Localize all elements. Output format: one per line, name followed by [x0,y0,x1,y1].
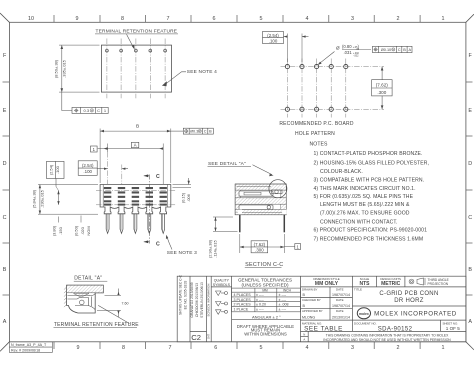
feature control frame (top view) [72,107,108,113]
retention detail inside balloon [272,190,283,194]
svg-text:B: B [136,124,139,130]
feature control frame content [74,108,107,113]
tolerance sub-table [232,288,301,320]
svg-text:± ----: ± ---- [279,298,288,302]
holes row 1 [285,65,348,69]
detail A body [67,285,104,313]
svg-text:Rev. # 2009/06/18: Rev. # 2009/06/18 [11,348,40,352]
svg-text:DR HORZ: DR HORZ [394,298,423,304]
svg-text:2 PLACES: 2 PLACES [234,303,252,307]
svg-text:(2.54): (2.54) [267,33,279,38]
svg-text:MM ONLY: MM ONLY [315,281,339,287]
leader from dim to position frame [62,92,72,110]
svg-text:.230±.015: .230±.015 [40,189,45,208]
front view contact stacks [104,187,167,206]
drawn by row [302,288,344,292]
draft note [237,324,294,337]
section side hatched walls [235,184,241,215]
dim A dimension line [98,147,164,150]
proprietary statement [323,333,451,341]
svg-text:3 PLACES: 3 PLACES [234,298,252,302]
svg-text:NOTES: NOTES [310,141,329,147]
leader to hole 3 [127,34,135,49]
svg-text:SHEET NO.: SHEET NO. [443,321,459,325]
svg-text:CONNECTION WITH CONTACT.: CONNECTION WITH CONTACT. [320,219,398,225]
hole row centerlines [281,67,385,110]
right zone letters [468,53,472,325]
svg-text:SEE NOTE 3: SEE NOTE 3 [167,250,197,256]
svg-text:Ø0.10: Ø0.10 [381,48,391,52]
dim box (2.54)/.100 row pitch [47,161,65,178]
dim B extension lines [100,129,171,184]
svg-text:0.3: 0.3 [84,108,90,113]
svg-text:RECOMMENDED P.C. BOARD: RECOMMENDED P.C. BOARD [279,121,354,127]
svg-text:.006: .006 [186,193,191,202]
svg-text:5: 5 [260,16,263,22]
label TERMINAL RETENTION FEATURE (top) [95,28,178,34]
svg-text:2013/01/14: 2013/01/14 [332,315,350,319]
svg-text:M: M [199,130,201,133]
svg-text:(0.50): (0.50) [74,225,79,236]
svg-text:1: 1 [93,147,96,152]
leader SEE NOTE 3 [166,235,172,250]
dim B dimension line [100,130,183,133]
proprietary small cells [307,331,309,341]
pin1/pin2 centerline stubs [108,152,122,184]
svg-text:± .008: ± .008 [279,303,289,307]
svg-text:SEE DETAIL "A": SEE DETAIL "A" [208,161,246,167]
svg-text:.100: .100 [269,38,278,43]
pin pitch dim arrows [97,168,128,170]
svg-text:3: 3 [351,16,354,22]
svg-text:A: A [468,319,472,325]
svg-text:7.60: 7.60 [122,302,129,306]
section body outline [235,184,286,215]
third angle projection text [428,278,449,286]
holes row 2 [285,107,348,111]
hole pitch extension lines [287,34,302,63]
dim A extension centerlines [108,144,164,185]
circuit 1 boxed label (front view) [91,146,98,152]
top zone ticks [54,15,420,22]
sheet no divider [439,320,441,331]
svg-text:METRIC: METRIC [381,281,401,287]
svg-text:TERMINAL RETENTION FEATURE: TERMINAL RETENTION FEATURE [54,322,139,328]
quality symbols header [213,279,231,287]
left zone ticks [3,82,10,295]
svg-text:1 PLACE: 1 PLACE [234,307,249,311]
svg-text:C-GRID PCB CONN: C-GRID PCB CONN [379,291,438,297]
top view housing outline [101,45,171,92]
svg-text:MM: MM [262,288,268,292]
bottom zone ticks [54,342,420,349]
svg-text:7: 7 [169,345,172,351]
leader (0.50) [80,216,82,223]
svg-text:EC NO. S205-1E33: EC NO. S205-1E33 [184,280,188,309]
svg-text:C2: C2 [191,333,201,342]
svg-text:1: 1 [297,244,300,249]
dim text (8.50±.38)/.335±.015 rotated [54,59,67,78]
dim (7.62)/.300 between pins [240,234,284,253]
corner diagonal bottom-right [466,342,474,350]
svg-text:ANGULAR ± 2 °: ANGULAR ± 2 ° [252,314,281,319]
svg-text:PROJECTION: PROJECTION [428,282,449,286]
section arrows C [144,174,148,177]
front view housing inner walls [103,185,168,208]
svg-text:3) COMPATABLE WITH PCB HOLE PA: 3) COMPATABLE WITH PCB HOLE PATTERN. [314,178,425,184]
svg-text:D: D [468,161,472,167]
svg-text:B: B [209,130,212,134]
by/date sub divider [329,287,331,320]
svg-text:C: C [398,48,401,52]
row line under top row [301,286,466,288]
svg-text:A: A [3,319,7,325]
svg-text:DATE: DATE [336,298,344,302]
svg-text:D: D [3,161,7,167]
leader to hole 3 [318,52,335,65]
dim (0.50)/.020 NOM rotated with leader [74,225,92,236]
svg-text:SEE NOTE 4: SEE NOTE 4 [187,69,217,75]
section top hatched wall [235,184,286,190]
svg-text:.020: .020 [80,226,85,235]
svg-text:M: M [392,49,394,52]
dim box (2.54)/.100 hole pitch [263,32,284,44]
proprietary cells content [303,332,305,341]
lower cavity contact [239,205,273,210]
svg-text:LENGTH MUST BE (5.65)/.222 MIN: LENGTH MUST BE (5.65)/.222 MIN & [320,202,410,208]
revision strip dividers [189,276,191,342]
corner diagonal top-right [466,14,474,22]
frame filename box bottom-left [9,342,52,353]
svg-text:.335±.015: .335±.015 [62,59,67,78]
svg-text:.100: .100 [55,165,60,174]
corner diagonal top-left [0,13,9,22]
svg-text:6: 6 [213,16,216,22]
design units cell [380,277,401,287]
svg-text:10: 10 [28,16,34,22]
svg-text:B: B [468,267,472,273]
svg-text:5) FOR (0.635)/.025 SQ. MALE P: 5) FOR (0.635)/.025 SQ. MALE PINS THE [314,194,414,200]
svg-text:Ø: Ø [336,46,340,51]
svg-text:.300: .300 [255,248,264,253]
svg-text:1987/07/14: 1987/07/14 [332,304,350,308]
hole column centerlines [287,59,345,118]
svg-text:ECR/ECN INFORMATION: ECR/ECN INFORMATION [206,284,210,317]
revision strip rotated text [179,274,211,339]
detail A balloon circle [269,180,287,198]
dim (8.50)/.335 extension lines [59,45,100,92]
svg-text:9: 9 [76,16,79,22]
svg-text:F: F [469,53,473,59]
svg-text:1: 1 [442,345,445,351]
svg-text:± ----: ± ---- [256,307,265,311]
detail A wedge feature [74,294,90,298]
svg-text:E: E [468,108,472,114]
caption SECTION C-C [245,262,284,268]
scale cell [360,277,371,287]
svg-text:.300: .300 [377,90,386,95]
svg-text:F: F [3,53,7,59]
leader (3.80) [58,217,60,223]
svg-text:DATE: DATE [336,309,344,313]
quality symbol 1 [216,291,228,296]
hole diameter callout [336,44,371,58]
top view terminal centerlines [107,39,165,99]
svg-text:DRAWN BY: DRAWN BY [302,288,318,292]
svg-text:INCH: INCH [283,288,291,292]
section pins [240,215,284,233]
svg-text:C: C [156,174,160,180]
svg-text:N_frame_A3_P_4A_T: N_frame_A3_P_4A_T [11,343,47,347]
svg-text:DATE: DATE [336,288,344,292]
svg-text:THIS DRAWING CONTAINS INFORMAT: THIS DRAWING CONTAINS INFORMATION THAT I… [326,333,449,337]
svg-text:SHT: SHT [206,333,210,339]
svg-text:1 OF 5: 1 OF 5 [446,326,460,331]
svg-text:(7.62): (7.62) [376,83,388,88]
svg-text:C: C [204,130,207,134]
section cavity extra lines [237,186,286,212]
feature control frame (holes) [373,46,413,52]
quality symbol 2 [216,302,228,307]
dim (8.50)/.335 dimension line with arrows [61,45,64,92]
checked by row [302,298,344,302]
approved by row [302,309,344,313]
quality symbol 3 [216,310,228,315]
svg-text:(5.84±.38): (5.84±.38) [32,189,37,208]
dim (2.90±.38)/.114±.015 pin length [213,217,238,231]
svg-text:SDA-90152: SDA-90152 [378,326,413,332]
dim (5.84±.38)/.230±.015 [38,185,98,215]
svg-text:SEE TABLE: SEE TABLE [304,326,343,333]
svg-text:DETAIL "A": DETAIL "A" [74,276,102,282]
svg-text:9: 9 [77,345,80,351]
svg-text:(7.62): (7.62) [254,242,266,247]
svg-text:1: 1 [104,108,107,113]
dim (3.80)/.150 rotated with leader [52,225,64,236]
revision letter cell line [190,330,207,332]
svg-text:8: 8 [122,345,125,351]
detail A dim arrows [117,289,119,318]
svg-text:B: B [403,48,406,52]
detail A hatched top [67,285,104,293]
svg-text:1: 1 [442,16,445,22]
svg-text:MLONG: MLONG [302,315,315,319]
svg-text:CHIODO96 2013/06/13: CHIODO96 2013/06/13 [195,283,199,317]
section bottom hatched wall [235,209,286,214]
section line C-C through pin 4 [144,175,150,244]
upper cavity contact [239,191,273,196]
svg-text:SECTION C-C: SECTION C-C [245,262,283,268]
svg-text:6: 6 [214,345,217,351]
svg-text:5: 5 [260,345,263,351]
svg-text:1) CONTACT-PLATED PHOSPHOR BRO: 1) CONTACT-PLATED PHOSPHOR BRONZE. [314,151,423,157]
hole pitch dim arrows [284,35,309,37]
corner diagonal bottom-left [0,342,9,352]
title block outline [177,276,466,342]
top zone numbers [28,16,445,22]
svg-text:HOLE PATTERN: HOLE PATTERN [295,131,335,137]
svg-text:TITLE: TITLE [354,288,362,292]
front view pins [106,214,164,234]
detail A left edge hatch [64,287,67,307]
dim box (7.62)/.300 [372,80,393,96]
caption DETAIL 'A' [74,276,108,282]
label TERMINAL RETENTION FEATURE (detail) [54,322,140,328]
svg-text:± ----: ± ---- [279,293,288,297]
front view housing outline with pin towers [100,185,171,214]
svg-text:± ----: ± ---- [279,307,288,311]
tolerance rows [234,293,289,311]
svg-text:C: C [97,108,100,113]
svg-text:2) HOUSING-15% GLASS FILLED PO: 2) HOUSING-15% GLASS FILLED POLYESTER, [314,160,430,166]
dim A boxed label [131,142,138,147]
svg-text:COLOUR-BLACK.: COLOUR-BLACK. [320,169,363,175]
svg-text:SYMBOLS: SYMBOLS [213,283,231,287]
svg-text:(UNLESS SPECIFIED): (UNLESS SPECIFIED) [242,282,289,287]
svg-text:8: 8 [121,16,124,22]
svg-text:CHECKED BY: CHECKED BY [302,298,321,302]
section middle hatched wall [235,198,286,204]
svg-text:(7.00)/.276 MAX. TO ENSURE GOO: (7.00)/.276 MAX. TO ENSURE GOOD [320,211,410,217]
svg-text:7) RECOMMENDED PCB THICKNESS 1: 7) RECOMMENDED PCB THICKNESS 1.6MM [314,236,424,242]
svg-text:1987/07/14: 1987/07/14 [332,293,350,297]
dim box (7.62)/.300 (section) [251,241,268,253]
dimension style cell [313,277,339,287]
row pitch leader and arrows [56,179,60,205]
svg-text:4) THIS MARK INDICATES CIRCUIT: 4) THIS MARK INDICATES CIRCUIT NO.1. [314,186,416,192]
svg-text:7: 7 [167,16,170,22]
svg-text:(3.80): (3.80) [52,225,57,236]
quality symbols header line [211,286,231,288]
detail A contact features [68,294,96,310]
svg-text:.100: .100 [83,169,92,174]
bottom zone numbers [77,345,445,351]
label SEE DETAIL 'A' [208,161,252,167]
svg-text:(8.50±.38): (8.50±.38) [54,59,59,78]
svg-text:GRANATO2 2013/08/09: GRANATO2 2013/08/09 [190,282,194,317]
svg-text:N: N [303,332,305,336]
svg-text:M: M [91,109,93,113]
svg-text:3: 3 [351,345,354,351]
svg-text:C: C [468,215,472,221]
svg-text:molex: molex [359,312,369,316]
svg-text:C: C [156,242,160,248]
svg-text:2: 2 [397,16,400,22]
svg-text:± 0.20: ± 0.20 [256,303,266,307]
frame filename text [11,343,47,352]
svg-text:STEVERLIN 2013/06/13: STEVERLIN 2013/06/13 [200,282,204,318]
dim (0.15)/.006 housing lip [173,178,192,188]
title cell line [352,305,466,307]
svg-text:(2.54): (2.54) [48,164,53,175]
svg-text:INCORPORATED AND SHOULD NOT BE: INCORPORATED AND SHOULD NOT BE USED WITH… [323,338,451,342]
leader SEE DETAIL 'A' [253,165,274,176]
general tolerances heading [238,277,292,287]
dim box (2.54)/.100 pin pitch [78,161,97,176]
svg-text:B: B [3,267,7,273]
svg-text:Ø0.3: Ø0.3 [190,130,198,134]
svg-text:2: 2 [397,345,400,351]
svg-text:6) PRODUCT SPECIFICATION: PS-9: 6) PRODUCT SPECIFICATION: PS-99020-0001 [314,228,428,234]
svg-text:B: B [303,304,306,308]
svg-text:DOCUMENT NO.: DOCUMENT NO. [354,321,377,325]
svg-text:C: C [3,215,7,221]
svg-text:NOM: NOM [86,226,91,235]
third angle projection symbol [409,278,425,285]
svg-text:.150: .150 [58,226,63,235]
svg-text:.114±.015: .114±.015 [212,239,217,257]
front view row centerlines [96,191,176,205]
svg-text:E: E [3,108,7,114]
svg-text:4: 4 [306,16,309,22]
svg-text:± ----: ± ---- [256,293,265,297]
section pin pass-through gaps [238,210,287,215]
left zone letters [3,53,7,325]
svg-text:-.002: -.002 [353,54,359,57]
svg-text:MOLEX INCORPORATED: MOLEX INCORPORATED [374,311,457,318]
circuit no.1 mark (solid triangle) [162,81,167,86]
feature control frame (front view) [183,128,213,134]
top view retention holes [106,49,167,52]
svg-text:NTS: NTS [360,281,371,287]
svg-text:A: A [134,143,137,148]
tolerance table headers [262,288,291,292]
dim (7.62)/.300 row spacing [381,67,384,110]
svg-text:SHTMS UPDATE SEC C-C: SHTMS UPDATE SEC C-C [179,274,183,315]
svg-text:B: B [303,293,306,297]
svg-text:WITHIN DIMENSIONS: WITHIN DIMENSIONS [244,331,287,336]
svg-text:A: A [409,48,412,52]
svg-text:TERMINAL RETENTION FEATURE: TERMINAL RETENTION FEATURE [96,28,178,34]
svg-text:± ----: ± ---- [256,298,265,302]
svg-text:APPROVED BY: APPROVED BY [302,309,323,313]
svg-text:(2.54): (2.54) [82,163,94,168]
caption RECOMMENDED P.C. BOARD HOLE PATTERN [279,121,354,137]
svg-text:4: 4 [306,345,309,351]
circuit 1 boxed label (section) [284,244,300,250]
leader terminal retention (detail) [98,305,129,323]
right zone ticks [466,82,473,295]
drawn/checked/approved row lines [301,297,353,299]
svg-text:A: A [303,338,305,342]
leader SEE NOTE 4 [167,72,187,84]
svg-text:4 PLACES: 4 PLACES [234,293,252,297]
detail A dim extension lines [97,295,121,310]
molex logo [357,308,370,319]
